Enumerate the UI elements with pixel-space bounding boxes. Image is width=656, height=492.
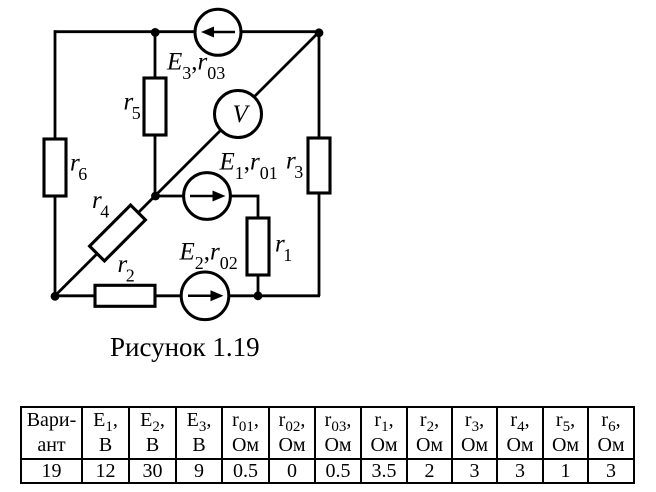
wire right branch: [318, 32, 321, 296]
svg-text:E1,r01: E1,r01: [219, 149, 278, 184]
node bottom (r1 bottom): [254, 291, 263, 300]
source E2 (arrow right): [181, 272, 229, 320]
wire left branch: [54, 30, 57, 296]
svg-text:r6: r6: [70, 150, 87, 185]
svg-text:Рисунок 1.19: Рисунок 1.19: [110, 332, 260, 362]
svg-text:r1: r1: [275, 231, 292, 266]
svg-text:r4: r4: [92, 187, 109, 222]
node at top of r5 branch: [151, 28, 160, 37]
resistor r5: [144, 78, 166, 135]
resistor r4 (on diagonal): [90, 205, 146, 261]
resistor r2: [95, 285, 155, 306]
parameters table: [20, 406, 635, 484]
resistor r1: [247, 218, 269, 275]
svg-text:r5: r5: [124, 89, 141, 124]
source E1 (arrow right): [184, 173, 231, 220]
svg-text:r2: r2: [118, 251, 135, 286]
wire bottom (node D area): [54, 294, 320, 297]
wire diagonal (node B to node D): [55, 32, 319, 296]
svg-text:r3: r3: [286, 148, 303, 183]
svg-text:E2,r02: E2,r02: [179, 239, 238, 274]
resistor r3: [308, 138, 330, 193]
resistor r6: [44, 139, 66, 196]
wire middle vertical (r5 branch): [154, 32, 157, 196]
wire top (node A to node B): [54, 30, 320, 33]
source E3 (arrow left): [195, 9, 241, 55]
node bottom-left: [51, 292, 60, 301]
voltmeter V: [215, 91, 262, 138]
node B top-right: [315, 28, 324, 37]
wire E1-r1 branch: [156, 196, 258, 296]
node middle (r5/r4/E1): [151, 192, 160, 201]
